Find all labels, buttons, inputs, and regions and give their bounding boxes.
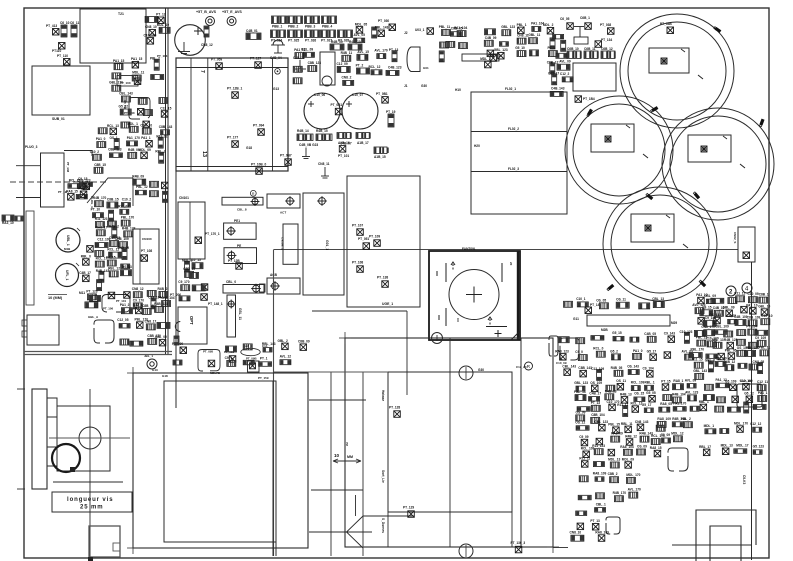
- svg-text:CBL_09: CBL_09: [155, 335, 167, 339]
- svg-text:AVL_170: AVL_170: [628, 488, 641, 492]
- svg-text:R11_17: R11_17: [617, 403, 628, 407]
- svg-text:PT_130_3: PT_130_3: [511, 541, 526, 545]
- svg-text:PBL_05: PBL_05: [725, 349, 737, 353]
- svg-text:PT_148: PT_148: [66, 162, 70, 173]
- svg-text:MDL_2: MDL_2: [480, 57, 491, 61]
- svg-text:CN100: CN100: [142, 237, 152, 241]
- svg-text:PT_051: PT_051: [358, 237, 369, 241]
- svg-text:PT_159: PT_159: [258, 376, 269, 380]
- svg-text:C9_09: C9_09: [661, 433, 671, 437]
- svg-text:R4B_09: R4B_09: [331, 40, 343, 44]
- svg-text:7M: 7M: [345, 442, 349, 447]
- svg-text:R4B_123: R4B_123: [122, 226, 136, 230]
- svg-text:MM: MM: [347, 455, 353, 459]
- svg-text:FL02_1: FL02_1: [505, 87, 516, 91]
- svg-text:FANT09L: FANT09L: [462, 247, 476, 251]
- svg-text:RCL_12: RCL_12: [369, 65, 381, 69]
- svg-text:RA8_104: RA8_104: [620, 445, 634, 449]
- svg-text:C8B_15: C8B_15: [107, 198, 119, 202]
- svg-text:G11: G11: [573, 317, 579, 321]
- svg-text:PA1_104: PA1_104: [454, 26, 467, 30]
- svg-text:PT_059: PT_059: [211, 58, 222, 62]
- svg-text:CBL_09: CBL_09: [704, 294, 716, 298]
- svg-text:CN8_109: CN8_109: [115, 237, 129, 241]
- svg-text:CN8_10: CN8_10: [570, 531, 582, 535]
- svg-text:C8B_123: C8B_123: [308, 61, 322, 65]
- svg-text:C4B_17: C4B_17: [589, 391, 601, 395]
- svg-text:C8B_09: C8B_09: [298, 340, 310, 344]
- svg-text:CN8_11: CN8_11: [318, 162, 330, 166]
- svg-text:AVL_15: AVL_15: [357, 50, 369, 54]
- svg-text:CN8_10: CN8_10: [145, 25, 157, 29]
- svg-text:CBL_8: CBL_8: [237, 208, 247, 212]
- svg-text:PT_1: PT_1: [260, 357, 268, 361]
- svg-text:G13: G13: [273, 87, 279, 91]
- svg-text:G18: G18: [162, 374, 168, 378]
- svg-text:PT_12B: PT_12B: [228, 259, 240, 263]
- svg-text:PBL_12: PBL_12: [136, 185, 148, 189]
- svg-text:C4B_01: C4B_01: [246, 29, 258, 33]
- svg-text:7: 7: [199, 70, 205, 73]
- svg-text:G5_15: G5_15: [612, 331, 622, 335]
- svg-text:GBL_09: GBL_09: [723, 306, 735, 310]
- svg-text:C12_12: C12_12: [750, 422, 761, 426]
- svg-text:CN8_10: CN8_10: [140, 124, 152, 128]
- svg-text:R4B_12: R4B_12: [625, 434, 637, 438]
- svg-text:A1B_15: A1B_15: [374, 155, 386, 159]
- svg-text:GBL_10: GBL_10: [758, 305, 770, 309]
- svg-text:PT_0B7: PT_0B7: [280, 154, 292, 158]
- svg-text:PA1_0: PA1_0: [633, 349, 643, 353]
- svg-text:PA1_170: PA1_170: [127, 136, 140, 140]
- svg-text:RA3_10: RA3_10: [2, 221, 14, 225]
- svg-text:C10_104: C10_104: [144, 33, 157, 37]
- svg-text:RBL_17: RBL_17: [699, 445, 711, 449]
- svg-text:R4B_2: R4B_2: [109, 224, 119, 228]
- svg-text:MDL7B: MDL7B: [210, 371, 220, 375]
- svg-text:R4B_15: R4B_15: [316, 129, 328, 133]
- svg-text:C12_09: C12_09: [337, 62, 348, 66]
- svg-text:MDL_10: MDL_10: [157, 23, 169, 27]
- svg-text:PA1_0: PA1_0: [96, 137, 106, 141]
- svg-text:U03_1: U03_1: [415, 28, 425, 32]
- svg-text:PT_170_1: PT_170_1: [205, 232, 220, 236]
- svg-text:C6_11: C6_11: [70, 21, 79, 25]
- svg-text:CN8_2: CN8_2: [342, 75, 352, 79]
- svg-text:G5_17: G5_17: [642, 403, 652, 407]
- svg-text:PT_12B_1: PT_12B_1: [227, 87, 242, 91]
- svg-text:T21: T21: [118, 12, 124, 16]
- svg-text:+5T_B_AVS: +5T_B_AVS: [196, 10, 217, 14]
- svg-text:SUB_01: SUB_01: [52, 117, 65, 121]
- svg-text:GBL_170: GBL_170: [109, 81, 123, 85]
- svg-text:PT_110: PT_110: [57, 54, 68, 58]
- svg-text:G5_12: G5_12: [119, 105, 129, 109]
- svg-text:R11_123: R11_123: [592, 444, 605, 448]
- svg-text:PT_095: PT_095: [203, 350, 214, 354]
- svg-text:C9_0: C9_0: [575, 350, 583, 354]
- svg-text:R: R: [252, 192, 255, 196]
- svg-text:C12_109: C12_109: [591, 367, 604, 371]
- svg-text:OS_143: OS_143: [627, 365, 639, 369]
- svg-text:RBL_143: RBL_143: [262, 342, 276, 346]
- svg-text:C10_123: C10_123: [680, 330, 693, 334]
- svg-text:R4B_13: R4B_13: [605, 389, 617, 393]
- svg-text:C12_17: C12_17: [548, 71, 559, 75]
- svg-text:MDL_170: MDL_170: [734, 422, 748, 426]
- svg-text:RA8_109: RA8_109: [595, 531, 609, 535]
- svg-text:R4B_05: R4B_05: [611, 366, 623, 370]
- svg-text:R11_09: R11_09: [118, 204, 129, 208]
- svg-text:10 (MM): 10 (MM): [48, 296, 63, 300]
- svg-text:CN8_11: CN8_11: [517, 34, 529, 38]
- svg-text:OS_15: OS_15: [634, 392, 644, 396]
- svg-text:UGE_1: UGE_1: [382, 302, 393, 306]
- svg-text:PBL_11: PBL_11: [759, 345, 771, 349]
- svg-text:CN101: CN101: [179, 196, 189, 200]
- svg-text:C8B_123: C8B_123: [108, 148, 122, 152]
- svg-text:C6B_11: C6B_11: [584, 47, 596, 51]
- svg-text:R4B_170: R4B_170: [613, 491, 627, 495]
- svg-text:PT_109: PT_109: [369, 235, 380, 239]
- svg-text:R4B_14: R4B_14: [297, 129, 309, 133]
- svg-text:MDL_170: MDL_170: [626, 473, 640, 477]
- svg-text:25 mm: 25 mm: [80, 505, 104, 511]
- svg-text:PLUG_3: PLUG_3: [25, 145, 38, 149]
- svg-text:C6B_10: C6B_10: [567, 47, 579, 51]
- svg-text:C8B_1: C8B_1: [759, 293, 769, 297]
- svg-text:C8B_143: C8B_143: [159, 125, 173, 129]
- svg-text:OS_09: OS_09: [576, 410, 586, 414]
- svg-text:C8B_104: C8B_104: [591, 413, 605, 417]
- svg-text:CBL_1: CBL_1: [596, 502, 606, 506]
- svg-text:PBL_2: PBL_2: [150, 57, 160, 61]
- svg-text:R4B_123: R4B_123: [154, 302, 168, 306]
- svg-text:R4B_170: R4B_170: [93, 196, 107, 200]
- svg-text:G5_05: G5_05: [646, 391, 656, 395]
- svg-text:PT_13: PT_13: [591, 401, 601, 405]
- svg-text:CBL_143: CBL_143: [562, 365, 576, 369]
- svg-text:AVL_05: AVL_05: [354, 33, 366, 37]
- svg-text:PA1_15: PA1_15: [131, 57, 143, 61]
- svg-text:AVL_09: AVL_09: [559, 60, 571, 64]
- svg-text:C12_2: C12_2: [560, 72, 570, 76]
- svg-text:C10_1: C10_1: [576, 297, 586, 301]
- svg-text:R4B_123: R4B_123: [724, 338, 738, 342]
- svg-text:C4B_143: C4B_143: [551, 86, 565, 90]
- svg-text:C9_15: C9_15: [702, 305, 712, 309]
- svg-text:C9_109: C9_109: [755, 336, 766, 340]
- svg-text:RBL_0: RBL_0: [81, 254, 91, 258]
- svg-text:R11_15: R11_15: [692, 358, 703, 362]
- svg-text:A1B_17: A1B_17: [357, 141, 369, 145]
- svg-text:PT_13: PT_13: [389, 48, 399, 52]
- svg-text:C9_170: C9_170: [178, 280, 189, 284]
- svg-text:PA1_170: PA1_170: [673, 401, 686, 405]
- svg-text:RBL_13: RBL_13: [712, 338, 724, 342]
- svg-text:GBL_2: GBL_2: [278, 339, 289, 343]
- svg-text:C10_10: C10_10: [761, 314, 772, 318]
- svg-text:CBL_0: CBL_0: [226, 280, 236, 284]
- svg-text:AVL_123: AVL_123: [685, 390, 698, 394]
- svg-text:PBL_170: PBL_170: [746, 346, 760, 350]
- svg-text:C4B_04: C4B_04: [270, 56, 282, 60]
- svg-text:RA8_109: RA8_109: [657, 417, 671, 421]
- svg-text:CBL_143: CBL_143: [119, 92, 133, 96]
- svg-text:C4B_123: C4B_123: [388, 65, 402, 69]
- svg-text:OS_143: OS_143: [709, 313, 721, 317]
- svg-text:PT_0B1: PT_0B1: [331, 103, 343, 107]
- svg-text:MDL_17: MDL_17: [736, 444, 748, 448]
- svg-text:C6_05: C6_05: [560, 17, 570, 21]
- svg-text:C4B_12: C4B_12: [724, 360, 736, 364]
- svg-text:G01_1: G01_1: [325, 240, 329, 250]
- svg-text:PT_04B: PT_04B: [660, 22, 672, 26]
- svg-text:C4B_0B G23: C4B_0B G23: [299, 143, 318, 147]
- svg-text:CBL_123: CBL_123: [594, 420, 608, 424]
- svg-text:M2B: M2B: [601, 328, 608, 332]
- svg-text:PT_129: PT_129: [403, 506, 414, 510]
- svg-text:RA8_05: RA8_05: [660, 402, 672, 406]
- svg-text:longueur vis: longueur vis: [67, 497, 113, 503]
- svg-text:MDL_12: MDL_12: [671, 431, 683, 435]
- svg-text:MDL_09: MDL_09: [622, 457, 634, 461]
- svg-text:PT_10: PT_10: [91, 208, 101, 212]
- svg-text:C9_1: C9_1: [225, 356, 233, 360]
- svg-text:C10_09: C10_09: [748, 292, 759, 296]
- svg-text:AVL_09: AVL_09: [685, 378, 697, 382]
- svg-text:CN8_143: CN8_143: [635, 420, 649, 424]
- svg-text:MDL_1: MDL_1: [704, 424, 715, 428]
- svg-text:C10_06: C10_06: [314, 93, 325, 97]
- svg-text:C4B_09: C4B_09: [485, 36, 497, 40]
- svg-text:G5_15: G5_15: [106, 256, 116, 260]
- svg-text:JBL_1: JBL_1: [144, 354, 153, 358]
- svg-text:RA8_15: RA8_15: [66, 189, 78, 193]
- svg-text:PBB_4: PBB_4: [322, 25, 333, 29]
- svg-text:RA8_09: RA8_09: [611, 432, 623, 436]
- svg-text:PT_101: PT_101: [338, 154, 349, 158]
- svg-text:CN8_09: CN8_09: [117, 246, 129, 250]
- svg-text:GBL_143: GBL_143: [693, 369, 707, 373]
- svg-text:PT_030: PT_030: [378, 19, 389, 23]
- svg-text:PT_148_1: PT_148_1: [208, 302, 223, 306]
- svg-text:C6B_1: C6B_1: [580, 16, 590, 20]
- svg-text:R4B_13: R4B_13: [620, 392, 632, 396]
- svg-text:M1B: M1B: [64, 247, 71, 251]
- svg-text:PBL_170: PBL_170: [691, 348, 705, 352]
- svg-text:G5_10: G5_10: [515, 46, 525, 50]
- svg-text:C9-K3: C9-K3: [742, 475, 746, 484]
- svg-text:H10: H10: [455, 88, 461, 92]
- svg-text:OS_13: OS_13: [122, 265, 132, 269]
- svg-text:RCL_12: RCL_12: [631, 402, 643, 406]
- svg-text:R4B_09: R4B_09: [132, 175, 144, 179]
- svg-text:M11: M11: [79, 291, 85, 295]
- svg-text:PT_13: PT_13: [590, 519, 600, 523]
- svg-text:RA8_17: RA8_17: [96, 225, 108, 229]
- svg-text:PA1_15: PA1_15: [113, 59, 125, 63]
- svg-text:G5_123: G5_123: [753, 445, 765, 449]
- svg-text:PT_0B1: PT_0B1: [376, 92, 388, 96]
- svg-text:C9_09: C9_09: [579, 435, 589, 439]
- svg-text:G18: G18: [246, 146, 252, 150]
- svg-text:Sort_Lie: Sort_Lie: [381, 470, 385, 483]
- svg-text:PT_1B4: PT_1B4: [583, 97, 595, 101]
- svg-text:RBL_12: RBL_12: [108, 266, 120, 270]
- svg-text:C12_11: C12_11: [757, 380, 768, 384]
- svg-text:MDL_13: MDL_13: [721, 444, 733, 448]
- svg-text:J2: J2: [404, 31, 408, 35]
- svg-text:CN8_12: CN8_12: [132, 287, 144, 291]
- svg-text:PT_138: PT_138: [377, 276, 388, 280]
- svg-text:PE: PE: [237, 244, 241, 248]
- svg-text:OS_12: OS_12: [575, 421, 585, 425]
- svg-text:PA1_2: PA1_2: [120, 303, 130, 307]
- svg-text:CBL_109: CBL_109: [715, 325, 729, 329]
- svg-text:PT_108: PT_108: [141, 249, 152, 253]
- svg-text:RA8_109: RA8_109: [593, 472, 607, 476]
- svg-text:R11_11: R11_11: [579, 456, 590, 460]
- svg-text:+5T_E_AVS: +5T_E_AVS: [222, 10, 242, 14]
- svg-text:RA8_123: RA8_123: [555, 349, 569, 353]
- svg-text:PBB_1: PBB_1: [272, 25, 283, 29]
- svg-text:C9_15: C9_15: [78, 177, 88, 181]
- svg-text:R4B_11: R4B_11: [341, 51, 353, 55]
- svg-text:UFL_1: UFL_1: [65, 270, 69, 280]
- svg-text:MDL_11: MDL_11: [132, 71, 144, 75]
- svg-text:Hakase: Hakase: [381, 390, 385, 401]
- svg-text:UBL_1: UBL_1: [66, 235, 70, 246]
- svg-text:PE1: PE1: [234, 219, 240, 223]
- svg-text:GBL_123: GBL_123: [574, 381, 588, 385]
- svg-text:C12_15: C12_15: [160, 106, 171, 110]
- svg-text:PBL_05: PBL_05: [79, 187, 91, 191]
- svg-text:PT_094: PT_094: [253, 124, 264, 128]
- svg-text:CN8_104: CN8_104: [161, 296, 175, 300]
- svg-text:PT_2: PT_2: [356, 64, 364, 68]
- svg-text:C8B_143: C8B_143: [578, 366, 592, 370]
- svg-text:C8B_12: C8B_12: [547, 60, 559, 64]
- svg-text:PT_10B_0: PT_10B_0: [251, 163, 266, 167]
- svg-text:C9_170: C9_170: [133, 298, 144, 302]
- svg-text:PBL_11: PBL_11: [439, 25, 451, 29]
- svg-text:RBL_1: RBL_1: [699, 400, 709, 404]
- svg-text:RA8_15: RA8_15: [650, 446, 662, 450]
- svg-text:C9_104: C9_104: [643, 366, 654, 370]
- svg-text:PT_1: PT_1: [548, 46, 556, 50]
- svg-text:MDL_1: MDL_1: [127, 122, 138, 126]
- svg-text:RCL_09: RCL_09: [301, 47, 313, 51]
- svg-text:G5_12: G5_12: [744, 392, 754, 396]
- svg-text:R4B_2: R4B_2: [158, 287, 168, 291]
- svg-text:R11_123: R11_123: [95, 217, 108, 221]
- svg-text:PT_12: PT_12: [156, 13, 166, 17]
- svg-text:CN8_05: CN8_05: [753, 360, 765, 364]
- svg-text:PT_413: PT_413: [46, 24, 57, 28]
- svg-text:GBL_A: GBL_A: [88, 315, 99, 319]
- svg-text:C4B_07: C4B_07: [340, 142, 352, 146]
- svg-text:PT110: PT110: [52, 49, 61, 53]
- svg-text:10: 10: [334, 453, 340, 458]
- svg-text:FL02_2: FL02_2: [508, 127, 519, 131]
- svg-text:OS_05: OS_05: [596, 298, 606, 302]
- svg-text:RBL_2: RBL_2: [155, 150, 165, 154]
- svg-text:G01: G01: [423, 66, 429, 70]
- svg-text:GBL_123: GBL_123: [501, 25, 515, 29]
- svg-text:C10_07: C10_07: [352, 93, 363, 97]
- svg-text:OPT: OPT: [189, 316, 194, 325]
- svg-text:PT_026: PT_026: [305, 39, 316, 43]
- svg-text:CN02_S: CN02_S: [733, 232, 737, 243]
- svg-text:AVL_12: AVL_12: [280, 355, 292, 359]
- svg-text:CN8_170: CN8_170: [701, 325, 715, 329]
- svg-text:MDL_09: MDL_09: [139, 148, 151, 152]
- svg-text:OS_11: OS_11: [616, 379, 626, 383]
- svg-text:GBL_123: GBL_123: [494, 48, 508, 52]
- svg-text:CN8_17: CN8_17: [145, 319, 157, 323]
- svg-text:C8B_15: C8B_15: [94, 163, 106, 167]
- svg-text:C10_2: C10_2: [122, 197, 132, 201]
- svg-text:C6B_12: C6B_12: [601, 47, 613, 51]
- svg-text:PT_134: PT_134: [601, 38, 612, 42]
- svg-text:MDL_13: MDL_13: [608, 458, 620, 462]
- svg-text:PBB_2: PBB_2: [288, 25, 299, 29]
- svg-text:PBL_143: PBL_143: [375, 26, 389, 30]
- svg-text:PA1_1: PA1_1: [141, 136, 151, 140]
- svg-text:C8B_15: C8B_15: [183, 267, 195, 271]
- svg-text:C12_05: C12_05: [117, 318, 128, 322]
- svg-text:C12_109: C12_109: [740, 379, 753, 383]
- svg-text:C4B_17: C4B_17: [79, 271, 91, 275]
- svg-text:13: 13: [201, 151, 207, 157]
- svg-text:GBL_11: GBL_11: [528, 33, 540, 37]
- svg-text:MDL_2: MDL_2: [543, 23, 554, 27]
- svg-text:20: 20: [509, 262, 513, 266]
- svg-text:PBL_15: PBL_15: [608, 423, 620, 427]
- svg-text:S_Durnes: S_Durnes: [381, 518, 385, 533]
- svg-text:GBL_11: GBL_11: [238, 308, 242, 320]
- svg-text:AVL_170: AVL_170: [374, 49, 387, 53]
- svg-text:C4B_109: C4B_109: [734, 315, 748, 319]
- svg-text:PT_025: PT_025: [288, 39, 299, 43]
- svg-text:G30: G30: [421, 84, 427, 88]
- svg-text:OS_109: OS_109: [590, 381, 602, 385]
- svg-text:GBL_0: GBL_0: [705, 358, 716, 362]
- svg-text:PT_106: PT_106: [103, 307, 114, 311]
- svg-text:RBL_1: RBL_1: [645, 380, 655, 384]
- svg-text:MDL_05: MDL_05: [355, 22, 367, 26]
- svg-text:C8B_2: C8B_2: [608, 472, 618, 476]
- svg-text:RCL_0: RCL_0: [593, 347, 603, 351]
- svg-text:R4B_104: R4B_104: [672, 393, 686, 397]
- svg-text:C9_143: C9_143: [664, 332, 675, 336]
- svg-text:PA1_10: PA1_10: [746, 303, 758, 307]
- svg-text:G5_109: G5_109: [725, 380, 737, 384]
- svg-text:PT_108: PT_108: [352, 261, 363, 265]
- svg-text:C8B_15: C8B_15: [142, 304, 154, 308]
- svg-text:PA1_1: PA1_1: [758, 391, 768, 395]
- svg-text:CBL_13: CBL_13: [652, 297, 664, 301]
- svg-text:PBL_170: PBL_170: [121, 216, 135, 220]
- svg-text:ACT: ACT: [280, 211, 286, 215]
- svg-text:PT_128: PT_128: [389, 406, 400, 410]
- svg-text:PT_038: PT_038: [600, 23, 611, 27]
- svg-text:M29: M29: [671, 321, 677, 325]
- svg-text:C12_104: C12_104: [148, 295, 161, 299]
- svg-text:PT_15: PT_15: [661, 380, 671, 384]
- svg-text:R11_12: R11_12: [156, 135, 167, 139]
